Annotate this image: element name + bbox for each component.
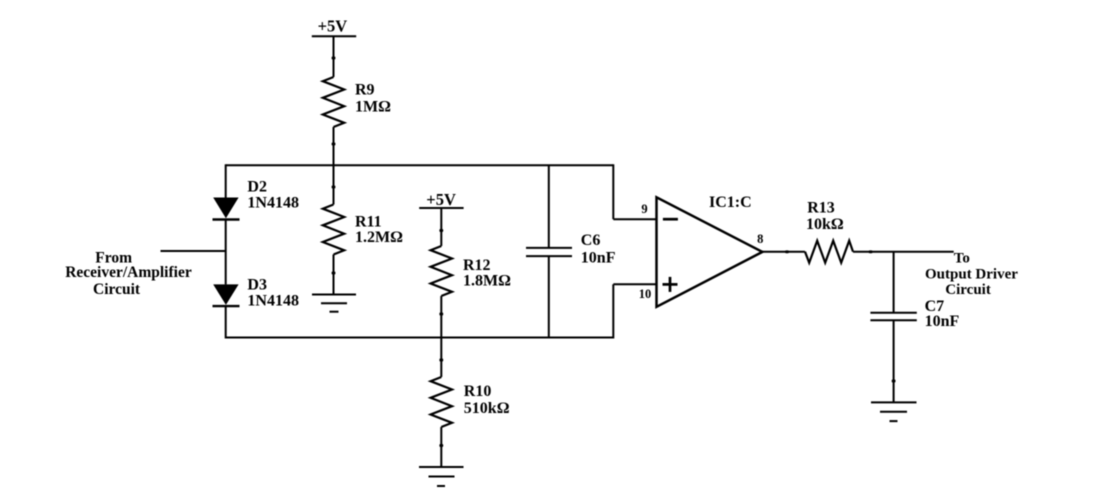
diode D2 (213, 198, 238, 219)
wire R11 to ground (333, 255, 335, 295)
svg-text:+5V: +5V (318, 16, 348, 35)
svg-text:1.2MΩ: 1.2MΩ (355, 229, 403, 246)
resistor R12 (431, 246, 452, 296)
svg-text:+5V: +5V (426, 190, 456, 209)
ground (below C7) (871, 402, 917, 421)
svg-text:10: 10 (639, 287, 652, 301)
svg-text:C6: C6 (581, 232, 601, 249)
op-amp IC1:C (657, 197, 763, 306)
wire C6 bottom plate to box bottom edge (548, 256, 550, 337)
diode D3 (213, 284, 238, 305)
label From Receiver/Amplifier Circuit (65, 249, 192, 298)
wire D3 cathode to box bottom corner (225, 306, 227, 338)
svg-text:1N4148: 1N4148 (247, 292, 299, 309)
+5V supply rail (feeds R12) (419, 207, 463, 209)
resistor R9 (323, 77, 344, 127)
wire right edge bottom segment (612, 284, 614, 338)
svg-text:Circuit: Circuit (93, 281, 141, 298)
svg-text:10kΩ: 10kΩ (806, 216, 844, 233)
svg-text:8: 8 (757, 232, 763, 246)
wire input from left (161, 250, 226, 252)
svg-text:Receiver/Amplifier: Receiver/Amplifier (65, 264, 192, 281)
svg-text:9: 9 (641, 202, 647, 216)
svg-text:Output Driver: Output Driver (925, 267, 1018, 283)
ground (below R10) (419, 467, 464, 486)
wire R13 to output (853, 251, 954, 253)
wire box top edge (226, 164, 614, 166)
svg-text:1N4148: 1N4148 (247, 194, 299, 211)
svg-text:1MΩ: 1MΩ (355, 98, 391, 115)
capacitor C7 (870, 313, 916, 321)
svg-text:D3: D3 (247, 277, 267, 294)
wire op-amp output to R13 (762, 251, 805, 253)
wire right edge top segment (612, 164, 614, 219)
wire R12 bottom through box bottom edge (440, 296, 442, 338)
svg-text:1.8MΩ: 1.8MΩ (463, 272, 511, 289)
svg-text:R9: R9 (355, 82, 375, 99)
+5V supply rail (top, feeds R9) (312, 35, 356, 37)
svg-text:10nF: 10nF (581, 250, 616, 267)
ground (below R11) (312, 295, 356, 312)
wire pin-end nubs (332, 57, 896, 448)
svg-text:To: To (954, 251, 970, 267)
svg-text:R10: R10 (464, 383, 492, 400)
wire box top node down to R11 (333, 165, 335, 204)
wire C7 to ground (893, 320, 895, 402)
wire box bottom edge (226, 337, 614, 339)
svg-text:510kΩ: 510kΩ (464, 400, 510, 417)
svg-text:10nF: 10nF (925, 313, 960, 330)
wire output node down to C7 (893, 252, 895, 313)
label To Output Driver Circuit (925, 251, 1018, 299)
wire D2 cathode to input node (225, 220, 227, 252)
resistor R10 (431, 377, 452, 427)
capacitor C6 (526, 248, 572, 256)
wire to op-amp non-inverting input (pin 10) (613, 283, 656, 285)
resistor R11 (323, 205, 344, 255)
wire +5V bar to R12 top (440, 208, 442, 246)
wire +5V bar to R9 top (333, 36, 335, 77)
wire to op-amp inverting input (pin 9) (613, 218, 656, 220)
wire input node to D3 anode (225, 251, 227, 284)
resistor R13 (805, 241, 853, 263)
svg-text:R13: R13 (807, 199, 835, 216)
svg-text:R11: R11 (355, 214, 382, 231)
svg-text:IC1:C: IC1:C (709, 194, 752, 211)
svg-text:D2: D2 (247, 178, 267, 195)
wire box top node down to C6 top plate (548, 165, 550, 248)
svg-text:Circuit: Circuit (945, 282, 991, 298)
wire box bottom node down to R10 (440, 338, 442, 378)
wire left edge, top corner to D2 anode (225, 164, 227, 197)
wire R10 to ground (440, 427, 442, 467)
wire R9 bottom to node on box top edge (333, 127, 335, 165)
